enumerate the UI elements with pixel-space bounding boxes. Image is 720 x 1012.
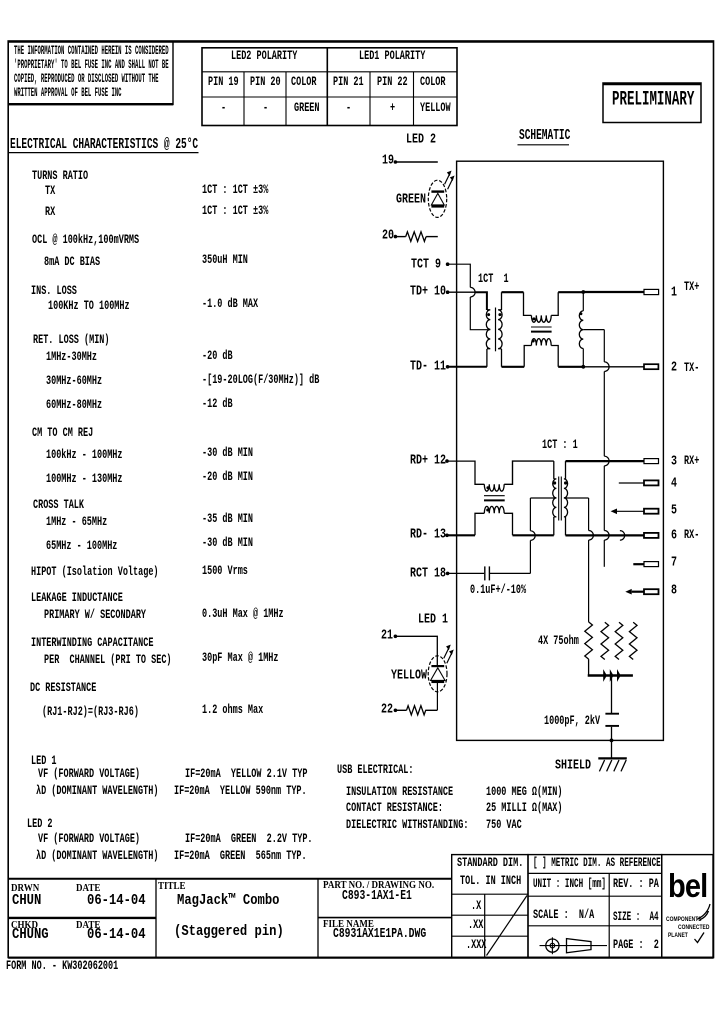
ground shield symbol [598,758,627,771]
transformer T2 core [559,477,562,521]
junction mark R2 on bus [604,671,607,681]
wire cap riser to center tap [529,498,531,531]
junction mark R4 on bus [617,671,620,681]
node RD+ pin 12 [445,459,449,463]
wire T1 primary bottom lead [486,349,488,367]
wire hop over RX+ wire [604,456,609,466]
PRELIMINARY box [603,83,701,123]
wire TD+ thick segment [475,292,487,310]
wire RD+12 to choke L2 [447,461,484,484]
node pin 20 terminal [394,235,398,239]
wire RD-13 to choke L2 [447,534,475,536]
T1 secondary polarity dot [498,313,501,316]
choke L2 bottom polarity dot [486,509,489,512]
junction TX+ node [581,290,585,294]
wire choke L2 bottom to T2 primary [504,513,512,535]
wire T2 primary center tap [530,497,556,499]
choke L2 core [484,496,505,501]
proprietary notice box bottom thick line [8,103,173,105]
junction mark R3 on bus [610,671,613,681]
PRELIMINARY box top thick line [603,83,701,86]
wire TCT hop to center tap [470,297,490,330]
resistor R1 75ohm [585,622,593,659]
choke L2 top polarity dot [486,486,489,489]
wire capacitor C1 to T2 center tap [489,572,530,574]
TX output choke winding [579,292,583,367]
LED D1 YELLOW [428,656,447,692]
wire bus to capacitor C2 [611,677,613,713]
wire pin6 RX- [566,534,645,536]
resistor R-LED1 [407,706,426,715]
wire TD-11 to T1 primary bottom [448,366,487,368]
wire TCT9 to T1 primary center tap [448,264,471,287]
wire T2 secondary center tap [564,497,589,499]
page bottom border thick line [8,957,713,959]
title block row divider thick [8,917,156,919]
title block top edge left [8,878,452,880]
choke L1 top polarity dot [532,317,535,320]
choke L1 bottom winding [524,339,558,367]
pad pin 7 [644,562,659,567]
wire pin2 TX- [583,366,644,368]
proprietary notice box [8,41,173,104]
wire choke L1 to TX output choke bottom [558,366,583,368]
node pin 21 terminal [394,635,398,639]
T2 primary polarity dot [553,481,556,484]
schematic boundary box [457,161,664,740]
wire pin21 to LED1 [396,636,437,666]
LED D2 GREEN [428,180,446,217]
wire center tap run down 2 [603,466,605,531]
choke L2 top winding [484,484,504,491]
pad pin 8 [644,589,659,594]
transformer T2 primary winding [553,461,557,535]
bel logo checkmark [695,933,705,943]
wire to shield ground [611,740,613,758]
wire RCT18 to capacitor C1 [448,572,484,574]
wire TX choke center tap [583,329,604,331]
wire center tap vertical run [603,330,605,362]
node pin 22 terminal [394,709,398,713]
wire pin1 TX+ [583,291,644,293]
bel logo swoosh [697,904,710,920]
resistor R3 75ohm [615,622,623,659]
page top border thick line [8,40,713,42]
wire TD+10 to T1 primary top [448,291,476,293]
TX output choke polarity dot [580,312,583,315]
choke L1 bottom polarity dot [532,340,535,343]
wire R1 bottom lead [588,659,590,674]
T1 primary polarity dot [487,313,490,316]
wire choke L2 bottom left elbow [475,513,484,535]
transformer T2 secondary winding [564,461,568,535]
capacitor C1 0.1uF [485,566,490,580]
heading underline ELECTRICAL CHARACTERISTICS [9,152,199,154]
wire LED1 to resistor R-LED1 [436,682,438,710]
wire pin8 [632,591,644,593]
wire hop over RD- wire [530,531,535,541]
wire hop TCT over TD+ [470,287,475,297]
resistor bottom bus wire [588,674,633,677]
node RCT pin 18 [446,572,450,576]
node pin 19 terminal [394,160,398,164]
pad pin 6 [644,533,659,538]
standard dim box [452,855,528,958]
wire pin7 [633,563,644,565]
transformer T1 secondary winding [498,310,502,349]
transformer T1 core [495,308,497,352]
TEXTS [14,46,169,59]
bel logo box [662,855,713,958]
wire capacitor C2 to box bottom [611,727,613,741]
junction at schematic box bottom [610,739,614,743]
transformer T1 primary winding [486,310,490,349]
LED D2 light emission arrows [445,171,454,189]
junction TX- node [581,365,585,369]
wire hop over TX- wire [604,362,609,372]
metric dim box [528,855,662,958]
pin5 arrow terminal [612,509,617,513]
wire hop secondary CT over RX- wire [589,531,594,541]
LED polarity table grid [202,48,457,126]
wire T2 secondary CT riser [588,498,590,531]
pad pin 1 [644,289,659,294]
wire pin3 RX+ [566,460,645,462]
wire T1 secondary top to choke L1 [501,292,503,310]
capacitor C2 1000pF 2kV [605,714,619,726]
node TD+ pin 10 [446,290,450,294]
wire pin22 to resistor R-LED1 [396,709,407,711]
SCHEMATIC underline [518,144,570,146]
wire resistor R-LED1 to LED1 [425,709,437,711]
resistor R4 75ohm [629,622,637,659]
title block FILE NAME divider [318,917,452,919]
pad pin 3 [644,459,659,464]
wire T1 secondary bottom to choke L1 [501,349,503,367]
wire pin5 [617,510,644,512]
wire resistor R-LED2 to LED2 [426,236,438,238]
node TCT pin 9 [446,262,450,266]
wire secondary CT to resistor R1 [588,540,590,622]
wire choke L2 top to T2 primary [504,461,554,484]
title block divider DRWN-TITLE [155,879,157,958]
pin8 arrow terminal [626,590,631,594]
pad pin 4 [644,480,659,485]
wire pin20 to resistor R-LED2 [396,236,406,238]
wire center tap run down [603,372,605,457]
node RD- pin 13 [445,534,449,538]
node TD- pin 11 [446,365,450,369]
pad pin 2 [644,364,658,369]
resistor R-LED2 [406,232,426,242]
wire hop mark on RX- wire [620,531,625,541]
wire choke L1 to TX output choke top [558,291,583,293]
wire hop over RX- wire [604,531,609,541]
LED D1 light emission arrows [444,645,453,663]
pad pin 5 [644,509,659,514]
choke L2 bottom winding [484,506,504,513]
resistor R2 75ohm [601,622,609,659]
wire pin19 to LED2 [396,161,438,163]
first angle projection symbol [540,937,608,954]
wire center tap run end [603,540,605,567]
choke L1 core [531,327,552,332]
title block divider TITLE-PART [317,879,319,958]
wire pin4 [619,482,644,484]
choke L1 top winding [524,292,559,322]
T2 secondary polarity dot [564,481,567,484]
